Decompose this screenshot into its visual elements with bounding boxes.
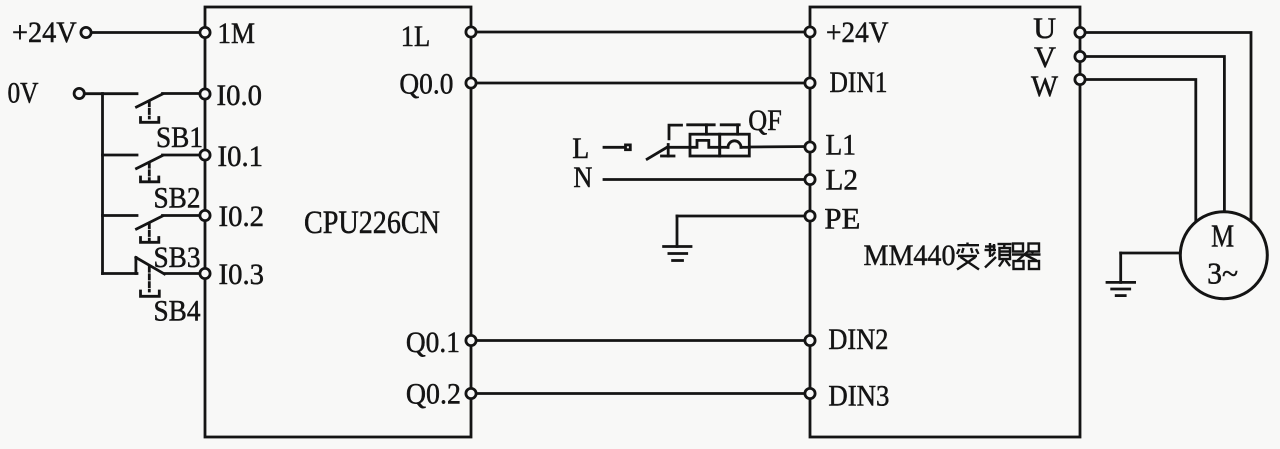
svg-text:CPU226CN: CPU226CN <box>304 205 440 241</box>
svg-text:1L: 1L <box>401 20 431 53</box>
svg-text:Q0.2: Q0.2 <box>406 378 461 411</box>
svg-text:SB4: SB4 <box>154 295 201 328</box>
svg-text:DIN3: DIN3 <box>828 380 889 413</box>
svg-text:0V: 0V <box>8 77 39 110</box>
svg-text:SB3: SB3 <box>154 241 201 274</box>
svg-text:L2: L2 <box>826 164 859 197</box>
svg-text:N: N <box>573 161 592 194</box>
svg-text:M: M <box>1211 218 1234 254</box>
svg-text:W: W <box>1031 70 1059 103</box>
svg-text:+24V: +24V <box>12 16 77 49</box>
svg-text:SB2: SB2 <box>154 182 201 215</box>
svg-text:Q0.0: Q0.0 <box>399 68 453 101</box>
svg-text:DIN2: DIN2 <box>828 323 888 356</box>
svg-text:QF: QF <box>748 104 782 137</box>
svg-text:MM440: MM440 <box>864 239 956 272</box>
svg-text:I0.1: I0.1 <box>218 140 264 173</box>
svg-text:3~: 3~ <box>1207 256 1238 291</box>
svg-text:DIN1: DIN1 <box>830 66 888 99</box>
svg-text:I0.0: I0.0 <box>217 79 263 112</box>
svg-text:L1: L1 <box>826 129 857 162</box>
svg-text:Q0.1: Q0.1 <box>406 326 460 359</box>
svg-text:+24V: +24V <box>826 16 889 49</box>
svg-text:SB1: SB1 <box>156 121 203 154</box>
svg-text:I0.2: I0.2 <box>219 200 265 233</box>
svg-text:PE: PE <box>824 203 860 236</box>
svg-text:1M: 1M <box>218 17 256 50</box>
svg-text:I0.3: I0.3 <box>219 258 265 291</box>
